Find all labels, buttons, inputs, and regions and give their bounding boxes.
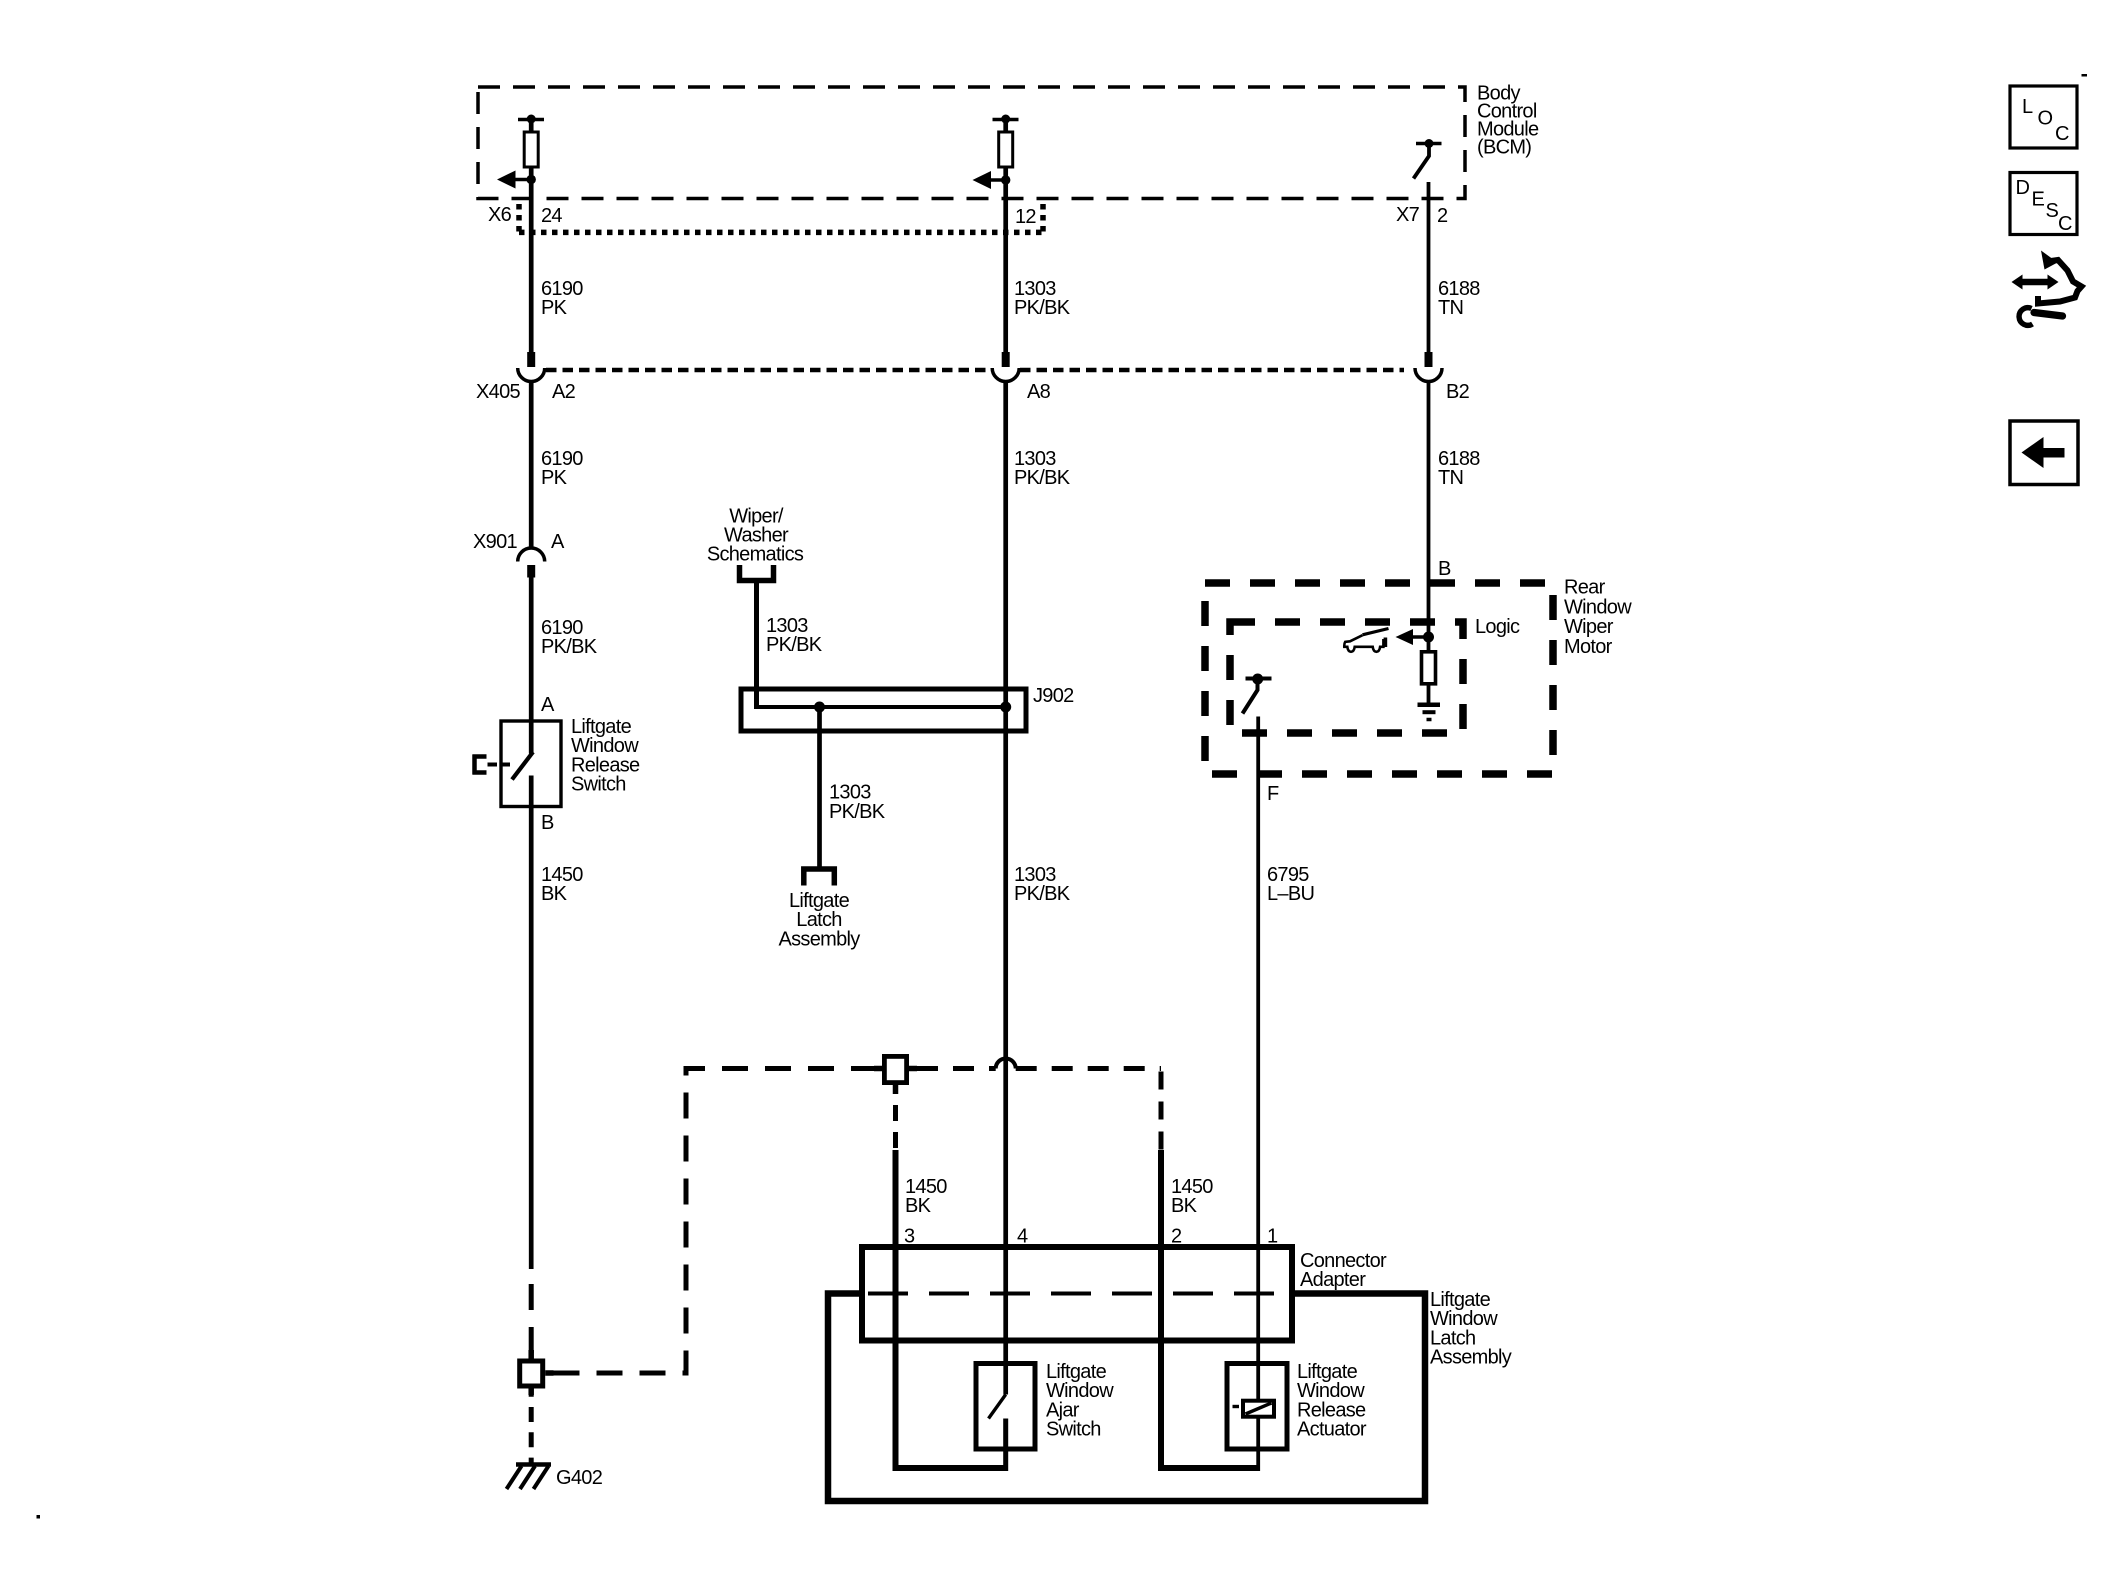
- svg-text:PK/BK: PK/BK: [766, 634, 823, 656]
- svg-text:PK/BK: PK/BK: [541, 636, 598, 658]
- svg-text:2: 2: [1437, 205, 1448, 227]
- Liftgate Window Release Switch box: [501, 716, 640, 807]
- svg-text:Assembly: Assembly: [1430, 1347, 1512, 1369]
- svg-text:1: 1: [1267, 1226, 1278, 1248]
- svg-text:PK/BK: PK/BK: [1014, 883, 1071, 905]
- J902 splice pack box: [741, 685, 1074, 731]
- wire W8 pin2 drop with U-loop to actuator (1450 BK): [1161, 1150, 1258, 1468]
- wire W1 segment X901 to release switch (6190 PK/BK): [529, 578, 534, 754]
- svg-text:C: C: [2058, 213, 2072, 235]
- wire W1 dashed segment to splice square: [529, 1272, 534, 1356]
- svg-text:BK: BK: [1171, 1195, 1198, 1217]
- svg-text:L–BU: L–BU: [1267, 883, 1314, 905]
- off-page reference to Liftgate Latch Assembly: [778, 869, 860, 950]
- Liftgate Window Ajar Switch box: [976, 1361, 1114, 1449]
- X6 connector band (BCM connector X6): [488, 204, 1043, 232]
- wire label 1303 PK/BK (lower): [1014, 864, 1071, 905]
- dashed jumper from junction square to wire 2 drop: [917, 1066, 996, 1071]
- Liftgate Window Release Actuator box: [1227, 1361, 1367, 1449]
- svg-text:O: O: [2038, 107, 2053, 129]
- wire W3b dashed segment below junction square: [893, 1094, 898, 1150]
- svg-text:B2: B2: [1446, 381, 1470, 403]
- svg-text:BK: BK: [541, 883, 568, 905]
- svg-text:S: S: [2046, 200, 2059, 222]
- diagnostic navigation icon (double arrow, connector outline, wrench): [2012, 251, 2082, 326]
- junction node on bus (wire W2): [1000, 702, 1011, 713]
- wire W1 segment release switch down (1450 BK): [529, 776, 534, 1270]
- off-page reference to Wiper/Washer Schematics: [707, 505, 804, 580]
- svg-text:C: C: [2055, 123, 2069, 145]
- svg-text:A8: A8: [1027, 381, 1051, 403]
- svg-text:Switch: Switch: [1046, 1419, 1101, 1441]
- J902 internal bus bar: [755, 705, 1006, 709]
- svg-text:12: 12: [1015, 206, 1036, 228]
- svg-text:PK/BK: PK/BK: [829, 801, 886, 823]
- svg-text:Switch: Switch: [571, 774, 626, 796]
- fuse F2 in BCM: [993, 115, 1019, 168]
- wire label 6190 PK (upper): [541, 278, 583, 319]
- wire dashed segment splice to ground: [529, 1395, 534, 1463]
- resistor in logic block: [1422, 637, 1436, 684]
- ground G402: [507, 1465, 603, 1490]
- wire W2 segment X405 through J902 to ajar switch (1303 PK/BK): [1003, 382, 1008, 1395]
- wire label 6190 PK/BK: [541, 617, 598, 658]
- svg-text:Actuator: Actuator: [1297, 1419, 1367, 1441]
- svg-text:B: B: [541, 812, 554, 834]
- svg-text:Adapter: Adapter: [1300, 1269, 1366, 1291]
- svg-text:D: D: [2016, 177, 2030, 199]
- wire label 1450 BK (left): [541, 864, 583, 905]
- BCM module box (Body Control Module): [478, 82, 1539, 198]
- svg-text:TN: TN: [1438, 467, 1463, 489]
- svg-text:Rear: Rear: [1564, 577, 1606, 599]
- Logic box (inside wiper motor): [1230, 616, 1520, 733]
- back arrow navigation button: [2010, 421, 2078, 485]
- Connector Adapter box: [862, 1247, 1387, 1341]
- wire W4 from wiper motor pin F to actuator (6795 L-BU): [1256, 717, 1260, 1472]
- DESC navigation button: [2010, 173, 2077, 236]
- ajar switch blade: [989, 1395, 1006, 1419]
- wire W1 segment X405 to X901 (6190 PK): [529, 382, 534, 549]
- LOC navigation button: [2010, 86, 2077, 148]
- svg-text:2: 2: [1171, 1226, 1182, 1248]
- car icon with open liftgate: [1344, 629, 1388, 652]
- svg-text:X901: X901: [473, 531, 517, 553]
- wire label 1303 PK/BK (below X405): [1014, 448, 1071, 489]
- arrow to left at fuse F1 output: [497, 171, 536, 189]
- svg-text:Assembly: Assembly: [778, 928, 860, 950]
- wire label 1303 PK/BK (latch branch): [829, 782, 886, 823]
- wire label 1303 PK/BK (wiper branch): [766, 615, 823, 656]
- Liftgate Window Latch Assembly box: [828, 1289, 1512, 1501]
- svg-text:24: 24: [541, 205, 562, 227]
- svg-text:PK: PK: [541, 467, 568, 489]
- connector X901: [473, 531, 545, 578]
- ground inside logic block: [1418, 686, 1441, 720]
- svg-text:PK/BK: PK/BK: [1014, 467, 1071, 489]
- wire label 6190 PK (below X405): [541, 448, 583, 489]
- fuse F1 in BCM: [518, 115, 544, 168]
- Rear Window Wiper Motor box: [1205, 577, 1632, 774]
- wire label 6188 TN (upper): [1438, 278, 1480, 319]
- svg-text:TN: TN: [1438, 297, 1463, 319]
- svg-text:F: F: [1267, 783, 1279, 805]
- svg-text:Wiper: Wiper: [1564, 616, 1614, 638]
- svg-text:G402: G402: [556, 1467, 603, 1489]
- svg-text:B: B: [1438, 558, 1451, 580]
- svg-text:X405: X405: [476, 381, 520, 403]
- svg-text:PK: PK: [541, 297, 568, 319]
- dashed jumper continues right then corner down: [1016, 1069, 1161, 1151]
- wire W7 pin3 drop with U-loop to ajar switch (1450 BK): [896, 1150, 1006, 1468]
- svg-text:A2: A2: [552, 381, 576, 403]
- connector terminal B2 of X405: [1415, 352, 1470, 403]
- wire label 6188 TN (below X405): [1438, 448, 1480, 489]
- svg-text:PK/BK: PK/BK: [1014, 297, 1071, 319]
- switch S2 in wiper motor: [1243, 674, 1272, 714]
- arrow to car icon: [1396, 629, 1429, 645]
- svg-text:Window: Window: [1564, 596, 1632, 618]
- wire label 1303 PK/BK (upper): [1014, 278, 1071, 319]
- release switch blade: [512, 752, 533, 780]
- release switch manual actuator symbol E: [473, 755, 512, 775]
- wire label 1450 BK (pin 3): [905, 1176, 947, 1217]
- splice square SP1: [520, 1350, 554, 1395]
- junction square SP2: [874, 1056, 917, 1094]
- stray mark top right: [2082, 74, 2088, 77]
- wire W1 segment BCM to X405 (6190 PK): [529, 119, 534, 353]
- svg-text:3: 3: [904, 1226, 915, 1248]
- branch wire J902 to liftgate latch assembly (1303 PK/BK): [817, 707, 822, 869]
- connector terminal A8 of X405: [992, 352, 1050, 403]
- svg-text:4: 4: [1017, 1226, 1028, 1248]
- arrow to left at fuse F2 output: [973, 171, 1011, 189]
- wire W3 segment BCM to X405 (6188 TN): [1427, 182, 1431, 353]
- wire W3 segment X405 to wiper motor (6188 TN): [1427, 382, 1431, 638]
- wire W2 segment BCM to X405 (1303 PK/BK): [1003, 119, 1008, 353]
- X405 harness connector dotted line: [476, 370, 1404, 403]
- junction node in logic block: [1423, 632, 1434, 643]
- wire label 1450 BK (pin 2): [1171, 1176, 1213, 1217]
- svg-text:Motor: Motor: [1564, 636, 1613, 658]
- hop of dashed jumper over wire W2: [996, 1059, 1016, 1069]
- svg-text:J902: J902: [1033, 685, 1074, 707]
- svg-text:X6: X6: [488, 204, 512, 226]
- svg-text:L: L: [2022, 96, 2033, 118]
- actuator solenoid: [1233, 1401, 1275, 1417]
- svg-text:E: E: [2032, 189, 2045, 211]
- svg-text:A: A: [541, 694, 555, 716]
- stray mark bottom left: [37, 1515, 41, 1519]
- wire label 6795 L-BU: [1267, 864, 1314, 905]
- wire from wiper/washer schematics to J902 (1303 PK/BK): [754, 583, 759, 709]
- connector terminal A2 of X405: [518, 352, 576, 403]
- junction node on bus (branch to latch): [814, 702, 825, 713]
- switch S1 in BCM (X7 output driver): [1414, 139, 1442, 179]
- svg-text:A: A: [551, 531, 565, 553]
- svg-text:X7: X7: [1396, 204, 1420, 226]
- svg-text:Schematics: Schematics: [707, 544, 804, 566]
- svg-text:(BCM): (BCM): [1477, 137, 1531, 159]
- svg-text:BK: BK: [905, 1195, 932, 1217]
- svg-text:Logic: Logic: [1475, 616, 1520, 638]
- ajar switch lower contact wire: [1003, 1419, 1008, 1472]
- dashed jumper from splice square to junction square: [554, 1069, 875, 1374]
